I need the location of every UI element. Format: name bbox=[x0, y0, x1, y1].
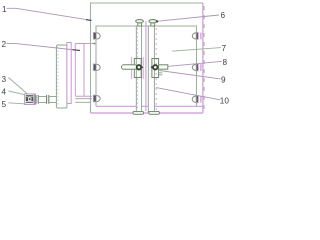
left block outer magenta guide bbox=[131, 57, 133, 79]
svg-text:6: 6 bbox=[221, 11, 226, 20]
leader 8 bbox=[167, 61, 222, 66]
riser top link to frame bbox=[75, 43, 94, 45]
svg-text:2: 2 bbox=[2, 40, 7, 49]
right arm bbox=[159, 65, 168, 69]
right block lower step bbox=[159, 73, 163, 75]
svg-text:7: 7 bbox=[222, 44, 227, 53]
leader 7 bbox=[172, 48, 221, 52]
leader 6 bbox=[157, 15, 219, 21]
support channel bracket bbox=[56, 45, 67, 108]
clamp right top bbox=[192, 32, 201, 39]
shaft collar ribs bbox=[47, 95, 49, 104]
leader 6 arrow dot bbox=[156, 20, 158, 22]
leader 2 bbox=[7, 44, 81, 51]
motor end ring bbox=[33, 94, 35, 104]
clamp left middle bbox=[93, 64, 100, 71]
leader 9 bbox=[160, 71, 221, 79]
clamp right middle bbox=[192, 64, 201, 71]
lead screw (magenta) bbox=[145, 21, 147, 111]
riser plate bbox=[67, 43, 71, 104]
clamp right bottom bbox=[192, 96, 202, 103]
svg-text:5: 5 bbox=[2, 100, 7, 109]
left ring nub bbox=[141, 66, 143, 68]
coupling ribs bbox=[36, 95, 38, 104]
clamp left bottom bbox=[93, 95, 100, 102]
motor shaft bbox=[39, 96, 46, 102]
rod 2 top cap bbox=[149, 20, 157, 27]
left pin ring bbox=[137, 65, 141, 69]
svg-text:3: 3 bbox=[2, 75, 7, 84]
clamp left top bbox=[93, 32, 100, 39]
left block inner magenta guide bbox=[142, 57, 144, 79]
guide rod 2 bbox=[148, 26, 154, 112]
leader 1 arrow tick bbox=[86, 19, 92, 22]
motor fin block bbox=[26, 95, 33, 103]
svg-text:10: 10 bbox=[220, 97, 230, 106]
slider block left bbox=[134, 59, 141, 78]
bracket outer purple vertical bbox=[83, 44, 85, 97]
motor fin stripes bbox=[26, 97, 33, 102]
leader 10 bbox=[156, 88, 220, 100]
leader 1 bbox=[7, 8, 92, 20]
motor body bbox=[25, 94, 36, 105]
motor label dot bbox=[29, 98, 31, 100]
lower shelf links to frame bbox=[75, 95, 92, 97]
rod 2 bottom flange foot bbox=[149, 111, 160, 114]
slider block right bbox=[152, 59, 159, 78]
rod 1 bottom flange foot bbox=[133, 111, 144, 114]
left arm bbox=[122, 65, 137, 70]
link end tick bbox=[94, 43, 96, 45]
inner mounting plate bbox=[96, 26, 203, 106]
riser outer line bbox=[74, 44, 76, 97]
right pin ring bbox=[153, 65, 157, 69]
leader 2 arrow tick bbox=[73, 49, 81, 52]
guide rod 1 bbox=[136, 26, 141, 112]
right ring nub bbox=[151, 66, 153, 68]
shaft into channel bbox=[49, 96, 56, 102]
channel inner dotted edge bbox=[57, 47, 59, 106]
rod 1 screw dotted line bbox=[136, 28, 138, 110]
svg-text:4: 4 bbox=[2, 87, 7, 96]
leader 5 bbox=[9, 103, 26, 104]
svg-text:8: 8 bbox=[223, 58, 228, 67]
leader 4 bbox=[9, 91, 26, 95]
rod 2 right dashed magenta bbox=[155, 28, 157, 110]
leader 3 bbox=[9, 78, 28, 95]
svg-text:1: 1 bbox=[2, 5, 7, 14]
rod 1 top cap bbox=[136, 20, 144, 27]
motor label window bbox=[28, 97, 31, 100]
svg-text:9: 9 bbox=[221, 76, 226, 85]
outer housing frame bbox=[91, 3, 205, 113]
